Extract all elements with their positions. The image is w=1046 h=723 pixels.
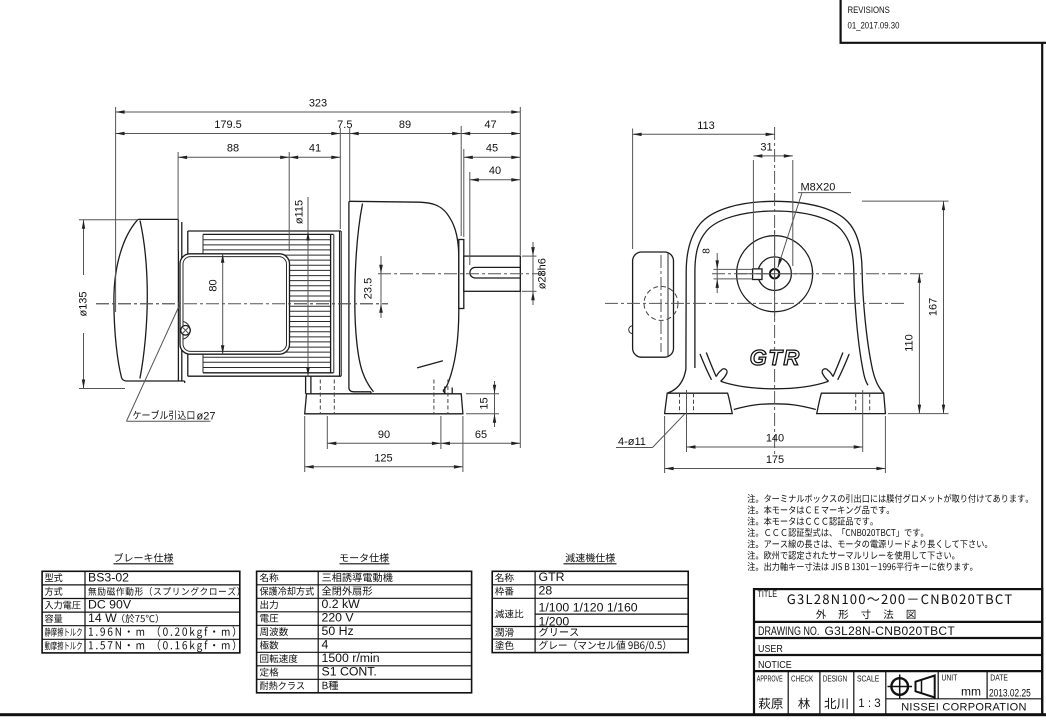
- svg-text:APPROVE: APPROVE: [757, 675, 783, 685]
- svg-text:mm: mm: [961, 685, 981, 699]
- svg-text:0.2 kW: 0.2 kW: [322, 597, 361, 611]
- svg-text:UNIT: UNIT: [942, 673, 958, 683]
- svg-text:4: 4: [322, 638, 329, 652]
- svg-text:90: 90: [378, 429, 390, 441]
- svg-text:CHECK: CHECK: [791, 674, 813, 684]
- svg-text:50 Hz: 50 Hz: [322, 624, 354, 638]
- svg-text:175: 175: [766, 454, 784, 466]
- svg-text:01_2017.09.30: 01_2017.09.30: [848, 20, 900, 31]
- svg-text:DC 90V: DC 90V: [88, 598, 132, 612]
- svg-text:167: 167: [928, 298, 940, 316]
- svg-text:28: 28: [539, 584, 553, 598]
- svg-text:ø28h6: ø28h6: [537, 258, 549, 289]
- svg-text:S1 CONT.: S1 CONT.: [322, 665, 377, 679]
- svg-text:ø135: ø135: [78, 291, 90, 316]
- svg-text:80: 80: [208, 279, 220, 291]
- svg-text:1/200: 1/200: [539, 614, 570, 628]
- svg-text:8: 8: [702, 248, 713, 254]
- svg-text:14 W: 14 W: [88, 611, 117, 625]
- svg-text:323: 323: [309, 98, 327, 110]
- svg-text:1500 r/min: 1500 r/min: [322, 651, 380, 665]
- svg-text:TITLE: TITLE: [758, 589, 778, 599]
- svg-text:89: 89: [399, 119, 411, 131]
- svg-text:140: 140: [766, 433, 784, 445]
- svg-text:110: 110: [903, 334, 915, 352]
- svg-text:1 : 3: 1 : 3: [858, 698, 880, 710]
- svg-text:GTR: GTR: [539, 570, 565, 584]
- svg-text:179.5: 179.5: [214, 119, 242, 131]
- svg-text:M8X20: M8X20: [801, 181, 836, 193]
- svg-text:NISSEI CORPORATION: NISSEI CORPORATION: [901, 702, 1027, 714]
- svg-text:NOTICE: NOTICE: [758, 659, 792, 671]
- svg-text:41: 41: [309, 143, 321, 155]
- svg-text:125: 125: [374, 452, 392, 464]
- svg-text:USER: USER: [758, 643, 783, 655]
- svg-text:1/100 1/120 1/160: 1/100 1/120 1/160: [539, 601, 638, 615]
- svg-text:88: 88: [227, 143, 239, 155]
- svg-text:BS3-02: BS3-02: [88, 570, 129, 584]
- svg-text:220 V: 220 V: [322, 611, 355, 625]
- svg-text:DESIGN: DESIGN: [823, 674, 847, 684]
- svg-text:ø27: ø27: [197, 410, 216, 422]
- svg-text:47: 47: [484, 119, 496, 131]
- svg-text:4-ø11: 4-ø11: [618, 436, 646, 448]
- svg-text:ø115: ø115: [294, 200, 306, 224]
- svg-text:15: 15: [479, 397, 491, 409]
- svg-text:65: 65: [475, 429, 487, 441]
- svg-text:DATE: DATE: [990, 673, 1008, 683]
- svg-text:REVISIONS: REVISIONS: [848, 4, 891, 15]
- svg-text:113: 113: [697, 120, 715, 132]
- svg-text:7.5: 7.5: [337, 119, 352, 131]
- svg-text:23.5: 23.5: [363, 278, 375, 299]
- svg-text:DRAWING NO.: DRAWING NO.: [758, 626, 819, 638]
- svg-text:31: 31: [760, 141, 772, 153]
- svg-text:2013.02.25: 2013.02.25: [989, 687, 1031, 699]
- svg-text:SCALE: SCALE: [857, 674, 879, 684]
- svg-text:45: 45: [486, 143, 498, 155]
- svg-text:40: 40: [489, 165, 501, 177]
- svg-text:G3L28N-CNB020TBCT: G3L28N-CNB020TBCT: [825, 624, 956, 638]
